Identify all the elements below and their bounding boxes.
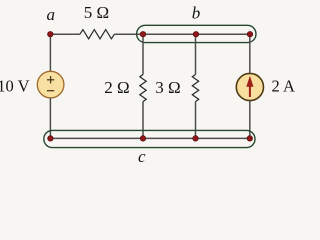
node b highlight (green stadium outline) [137,25,256,42]
wire: current source down to node c [249,101,251,139]
wire: resistor to node b region [114,33,143,35]
wire: 2-ohm resistor down to node c [142,102,144,139]
node c highlight (green stadium outline) [44,130,255,147]
junction c2 [140,136,146,142]
svg-text:c: c [138,147,146,166]
svg-text:b: b [192,4,201,23]
svg-text:10 V: 10 V [0,76,30,95]
junction b2 [193,31,199,37]
junction b3 [247,31,253,37]
wire: inside node b from first to third junction [143,33,250,35]
wire: top-left horizontal from node a to resistor [50,33,80,35]
wire: 3-ohm resistor down to node c [195,102,197,139]
wire: inside node c [50,137,249,139]
svg-text:5 Ω: 5 Ω [84,3,109,22]
wire: branch from b down to current source [249,34,251,73]
resistor 2 ohm (vertical zigzag) [140,75,146,102]
svg-text:3 Ω: 3 Ω [155,78,180,97]
svg-text:2 Ω: 2 Ω [104,78,129,97]
wire: voltage source down to node c [49,98,51,138]
svg-text:2 A: 2 A [272,76,295,95]
current source I 2A [236,73,263,100]
wire: branch from b down to 2-ohm resistor [142,34,144,74]
resistor 3 ohm (vertical zigzag) [192,75,198,102]
voltage source V 10V [37,71,64,98]
junction b1 [140,31,146,37]
junction node a [48,31,54,37]
junction c3 [193,136,199,142]
resistor 5 ohm (horizontal zigzag) [80,30,114,39]
junction c4 [247,136,253,142]
wire: node a down to voltage source [49,34,51,71]
wire: branch from b down to 3-ohm resistor [195,34,197,74]
junction c1 [48,136,54,142]
svg-text:a: a [47,5,56,24]
